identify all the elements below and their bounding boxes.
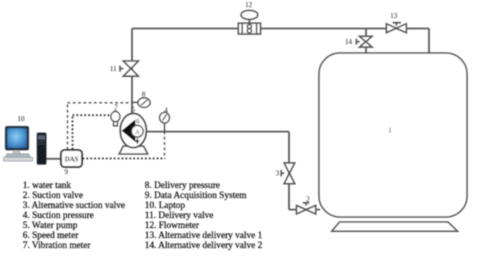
legend column 2 (145, 181, 263, 251)
wire: top delivery pipe (132, 28, 429, 30)
delivery pressure gauge 8 (132, 98, 150, 108)
svg-text:14: 14 (345, 38, 353, 46)
water pump 5 body (120, 114, 146, 148)
svg-text:13. Alternative delivery valve: 13. Alternative delivery valve 1 (145, 231, 263, 241)
svg-text:7: 7 (114, 103, 118, 111)
computer keyboard (3, 154, 32, 161)
svg-text:10: 10 (18, 115, 26, 123)
valve 11 (120, 61, 138, 76)
dashed link suction pressure to DAS line (164, 132, 166, 159)
svg-text:13: 13 (390, 12, 398, 20)
svg-text:3. Alternative suction valve: 3. Alternative suction valve (23, 201, 125, 211)
pump impeller triangle (122, 120, 136, 143)
svg-text:8. Delivery pressure: 8. Delivery pressure (145, 181, 220, 191)
svg-text:9: 9 (65, 168, 69, 176)
svg-text:1: 1 (388, 127, 392, 135)
svg-text:5: 5 (131, 106, 135, 114)
valve 3 (281, 163, 295, 184)
valve 14 (356, 36, 372, 47)
svg-text:10. Laptop: 10. Laptop (145, 201, 186, 211)
dotted link DAS to vibration meter (73, 115, 111, 149)
svg-text:2. Suction valve: 2. Suction valve (23, 191, 83, 201)
svg-text:11: 11 (110, 65, 117, 73)
valve 13 (386, 23, 406, 33)
svg-text:12: 12 (245, 1, 253, 9)
flowmeter 12 (238, 10, 260, 34)
svg-text:4. Suction pressure: 4. Suction pressure (23, 211, 94, 221)
dashed link DAS to delivery pressure tap (68, 103, 132, 150)
svg-text:12. Flowmeter: 12. Flowmeter (145, 221, 200, 231)
svg-text:6. Speed meter: 6. Speed meter (23, 231, 79, 241)
svg-text:14. Alternative delivery valve: 14. Alternative delivery valve 2 (145, 241, 263, 251)
laptop/computer 10 monitor (5, 126, 29, 150)
svg-text:DAS: DAS (65, 156, 79, 163)
svg-text:3: 3 (276, 170, 280, 178)
computer tower (37, 133, 46, 165)
wire: valve-14 drop to tank top (365, 29, 367, 57)
svg-text:9. Data Acquisition System: 9. Data Acquisition System (145, 191, 248, 201)
wire: tower to DAS (46, 158, 61, 160)
svg-text:4: 4 (164, 106, 168, 114)
speed meter 6 (A) (131, 125, 143, 137)
legend column 1 (23, 181, 125, 251)
water tank 1 (319, 53, 467, 217)
suction pressure gauge 4 (160, 112, 170, 131)
wire: suction pipe to tank (289, 209, 320, 211)
valve 2 (297, 203, 316, 214)
speed meter pointer (136, 137, 139, 143)
svg-text:2: 2 (306, 195, 310, 203)
wire: suction pipe vertical (288, 132, 290, 210)
tank base stand (332, 222, 458, 231)
svg-text:A: A (135, 129, 140, 136)
svg-text:8: 8 (142, 91, 146, 99)
wire: suction pipe horizontal (145, 131, 289, 133)
wire: right drop to tank top (428, 29, 430, 57)
vibration meter 7 (111, 110, 120, 126)
DAS box U9 (61, 150, 82, 167)
dotted link DAS right to suction sensor (83, 157, 166, 159)
svg-text:1. water tank: 1. water tank (23, 181, 72, 191)
svg-text:6: 6 (136, 118, 140, 126)
svg-text:5. Water pump: 5. Water pump (23, 221, 78, 231)
svg-text:7. Vibration meter: 7. Vibration meter (23, 241, 92, 251)
svg-text:11. Delivery valve: 11. Delivery valve (145, 211, 214, 221)
wire: left riser from pump to top pipe (131, 29, 133, 115)
computer stand (13, 150, 21, 153)
water pump 5 base (119, 146, 147, 154)
